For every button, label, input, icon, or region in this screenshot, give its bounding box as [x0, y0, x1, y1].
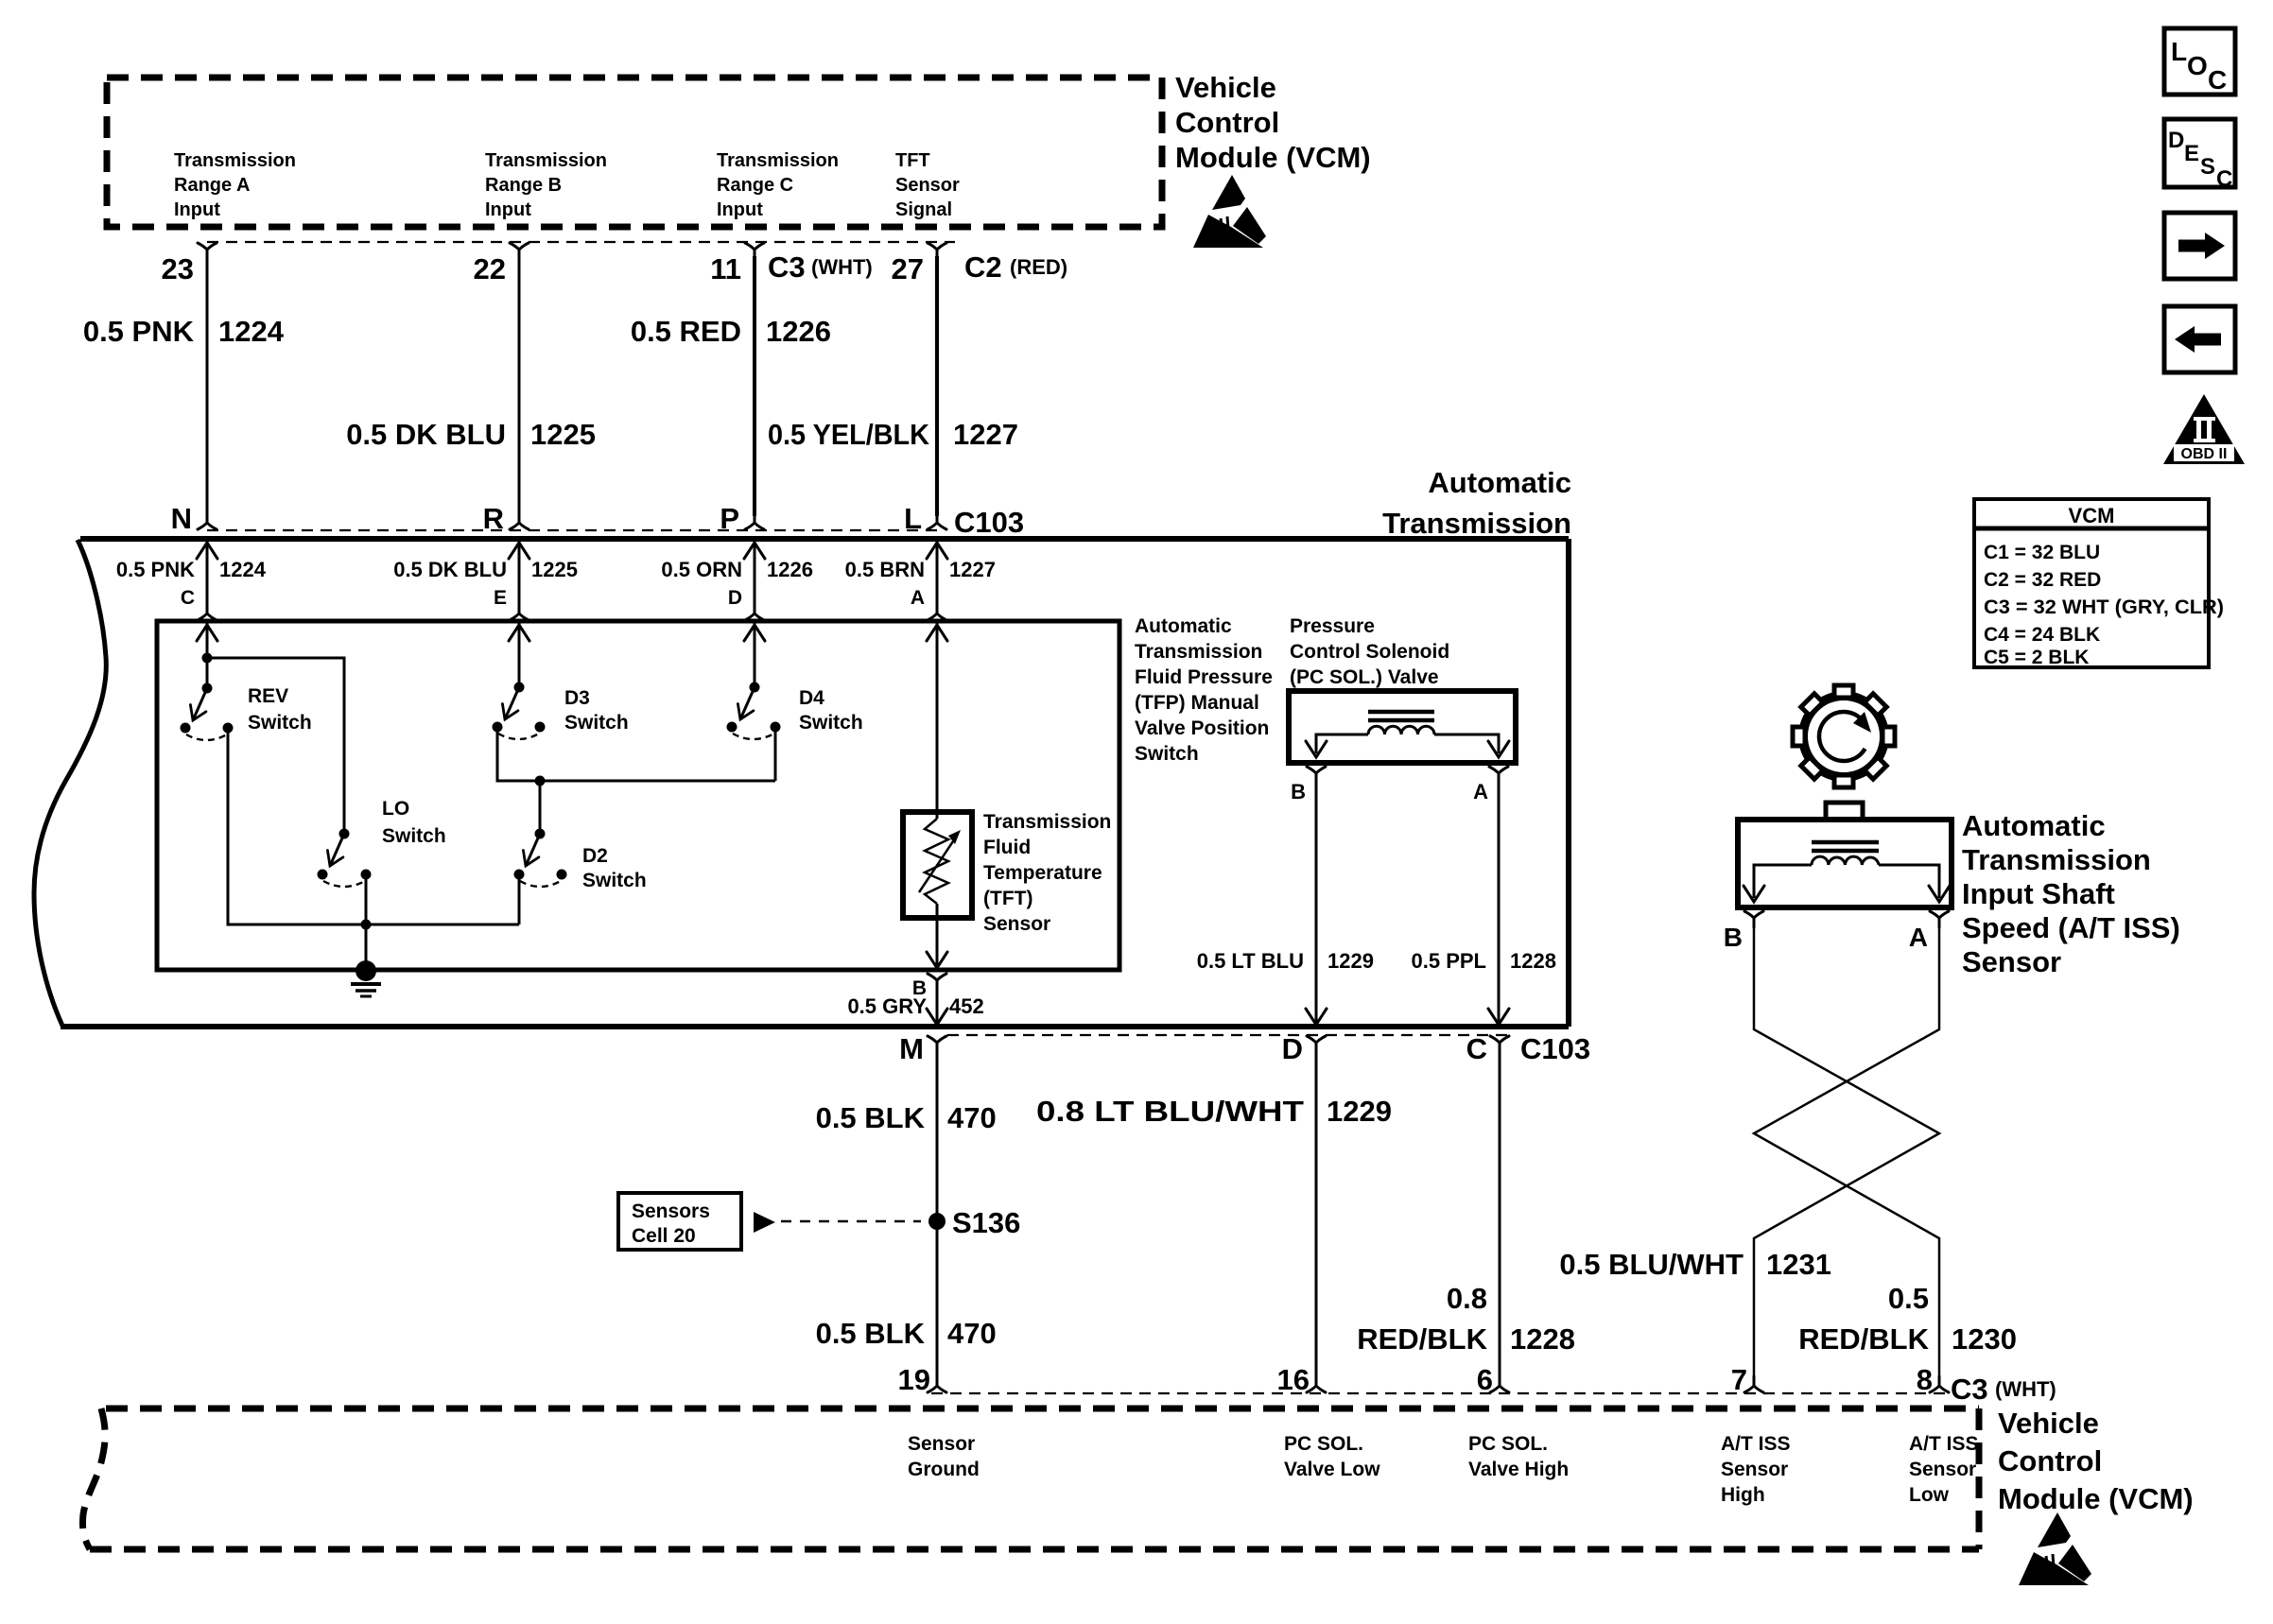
pin 6 (VCM)	[1490, 1376, 1509, 1392]
ground (case ground of TFP switch)	[351, 960, 381, 996]
svg-text:Switch: Switch	[582, 870, 647, 891]
svg-text:0.8 LT BLU/WHT: 0.8 LT BLU/WHT	[1036, 1095, 1304, 1128]
svg-text:Range B: Range B	[485, 175, 562, 196]
node junction REV/LO feed	[202, 653, 213, 664]
svg-text:Low: Low	[1909, 1484, 1950, 1506]
wire D4 switch feed	[754, 623, 756, 687]
wire arrow out of transmission (M)	[927, 1009, 947, 1025]
svg-text:0.5 DK BLU: 0.5 DK BLU	[346, 418, 506, 451]
svg-text:C4 = 24 BLK: C4 = 24 BLK	[1984, 624, 2100, 646]
pin D (C103)	[1307, 1036, 1326, 1052]
svg-text:L: L	[904, 502, 922, 535]
switch LO	[318, 829, 372, 888]
wire 1231 0.5 BLU/WHT (ISS B, twisted pair upper)	[1754, 924, 1939, 1380]
svg-text:Sensor: Sensor	[1909, 1459, 1976, 1480]
node junction D2 feed	[535, 776, 546, 786]
connector C103 line (thin dashed)	[207, 529, 941, 531]
svg-text:Sensors: Sensors	[632, 1201, 710, 1222]
wire dashed reference link to S136	[781, 1220, 921, 1223]
svg-text:Input: Input	[717, 199, 763, 220]
svg-text:Valve High: Valve High	[1468, 1459, 1569, 1480]
svg-text:0.5 PPL: 0.5 PPL	[1412, 949, 1486, 973]
wire REV contact to common bus	[228, 733, 519, 924]
solenoid PC SOL valve	[1289, 691, 1516, 763]
svg-text:S136: S136	[952, 1206, 1020, 1239]
svg-text:452: 452	[949, 994, 984, 1018]
wire 1225 0.5 DK BLU (C103 R to TFP E)	[518, 539, 521, 607]
svg-text:1228: 1228	[1510, 949, 1556, 973]
svg-text:D4: D4	[799, 687, 824, 709]
svg-text:RED/BLK: RED/BLK	[1357, 1322, 1487, 1356]
svg-text:C103: C103	[1520, 1032, 1590, 1065]
svg-text:TFT: TFT	[895, 150, 930, 171]
wire arrow into transmission (L)	[927, 543, 947, 559]
wire TFT to pin B	[936, 904, 939, 965]
wire 1224 0.5 PNK (C103 N to TFP C)	[206, 539, 209, 607]
wire arrow into transmission (R)	[509, 543, 529, 559]
svg-text:E: E	[2184, 141, 2199, 166]
connector C103 line bottom (thin dashed)	[947, 1034, 1510, 1036]
svg-text:Range A: Range A	[174, 175, 250, 196]
pin R (C103)	[510, 513, 529, 529]
svg-text:A: A	[1473, 780, 1488, 803]
pin 8 (VCM)	[1930, 1376, 1949, 1392]
svg-text:Sensor: Sensor	[983, 913, 1050, 935]
icon DESC box	[2164, 119, 2235, 192]
svg-text:1226: 1226	[766, 315, 831, 348]
svg-text:1224: 1224	[219, 558, 267, 581]
svg-text:Control: Control	[1998, 1444, 2102, 1477]
pin L (C103)	[928, 513, 946, 529]
wire arrow into transmission (P)	[744, 543, 765, 559]
svg-text:L: L	[2171, 37, 2187, 66]
svg-text:Input: Input	[174, 199, 220, 220]
svg-text:OBD II: OBD II	[2181, 446, 2228, 462]
svg-text:N: N	[171, 502, 192, 535]
svg-text:16: 16	[1277, 1363, 1310, 1396]
svg-text:1231: 1231	[1766, 1248, 1831, 1281]
svg-text:D: D	[2168, 128, 2184, 153]
svg-text:A: A	[1909, 923, 1928, 952]
pin M (C103)	[928, 1036, 946, 1052]
wire D4 contact down	[774, 732, 777, 781]
svg-text:Pressure: Pressure	[1290, 615, 1375, 637]
svg-text:D: D	[1282, 1032, 1303, 1065]
wire D2 contact to common bus	[518, 879, 521, 924]
svg-text:D: D	[728, 587, 742, 609]
svg-text:Automatic: Automatic	[1135, 615, 1232, 637]
svg-text:Range C: Range C	[717, 175, 793, 196]
pin 11 (VCM)	[745, 243, 764, 259]
svg-text:1226: 1226	[767, 558, 813, 581]
svg-text:Signal: Signal	[895, 199, 952, 220]
svg-text:(TFT): (TFT)	[983, 888, 1032, 909]
wire 452 0.5 GRY (TFP B to C103 M)	[936, 987, 939, 1022]
icon gear (rotating input shaft)	[1793, 685, 1895, 787]
switch D3	[493, 682, 546, 740]
pin 22 (VCM)	[510, 243, 529, 259]
wire TFT sensor feed	[936, 623, 939, 819]
svg-text:S: S	[2200, 154, 2215, 180]
box VCM connector table	[1974, 499, 2224, 668]
svg-text:High: High	[1721, 1484, 1765, 1506]
svg-text:Sensor: Sensor	[1721, 1459, 1788, 1480]
svg-text:Fluid: Fluid	[983, 837, 1031, 858]
svg-text:22: 22	[474, 252, 506, 285]
svg-text:Input Shaft: Input Shaft	[1962, 877, 2115, 910]
svg-text:0.5 BLK: 0.5 BLK	[816, 1317, 926, 1350]
svg-text:B: B	[1291, 780, 1306, 803]
wire 470 0.5 BLK lower (S136 to VCM 19)	[936, 1221, 939, 1380]
svg-text:470: 470	[947, 1317, 997, 1350]
svg-text:D2: D2	[582, 845, 608, 867]
svg-text:Switch: Switch	[248, 712, 312, 734]
svg-text:0.5: 0.5	[1888, 1282, 1929, 1315]
svg-text:0.5 GRY: 0.5 GRY	[847, 994, 927, 1018]
wire arrow into transmission (N)	[197, 543, 217, 559]
wire arrow out of TFP (B)	[927, 952, 947, 968]
svg-text:23: 23	[162, 252, 194, 285]
svg-text:D3: D3	[564, 687, 590, 709]
connector line VCM C3 bottom (thin dashed)	[931, 1392, 1945, 1394]
svg-text:Switch: Switch	[564, 712, 629, 734]
svg-text:0.5 ORN: 0.5 ORN	[661, 558, 742, 581]
svg-text:(RED): (RED)	[1010, 255, 1067, 279]
svg-text:Temperature: Temperature	[983, 862, 1102, 884]
wire arrow into TFP (C)	[197, 625, 217, 641]
svg-text:Vehicle: Vehicle	[1175, 71, 1276, 104]
svg-text:Transmission: Transmission	[1382, 507, 1571, 540]
svg-text:0.5 BLU/WHT: 0.5 BLU/WHT	[1559, 1248, 1744, 1281]
switch REV	[181, 683, 234, 741]
svg-text:Speed (A/T ISS): Speed (A/T ISS)	[1962, 911, 2180, 944]
pin 7 (VCM)	[1744, 1376, 1763, 1392]
svg-text:27: 27	[892, 252, 924, 285]
pin 16 (VCM)	[1307, 1376, 1326, 1392]
node splice S136	[928, 1213, 946, 1230]
icon arrow right box	[2164, 213, 2235, 279]
svg-text:(PC SOL.) Valve: (PC SOL.) Valve	[1290, 666, 1439, 688]
wire to D2 common	[539, 781, 542, 834]
module VCM top box (dashed)	[107, 78, 1162, 227]
svg-text:1228: 1228	[1510, 1322, 1575, 1356]
wire 1227 0.5 BRN (C103 L to TFP A)	[936, 539, 939, 607]
svg-text:0.5 YEL/BLK: 0.5 YEL/BLK	[768, 418, 930, 451]
svg-text:0.5 PNK: 0.5 PNK	[116, 558, 195, 581]
pin 19 (VCM)	[928, 1376, 946, 1392]
svg-text:0.5 DK BLU: 0.5 DK BLU	[393, 558, 507, 581]
svg-text:C3: C3	[768, 251, 806, 284]
symbol ESD warning (bottom)	[2019, 1512, 2091, 1585]
svg-text:Valve Low: Valve Low	[1284, 1459, 1380, 1480]
svg-text:Sensor: Sensor	[908, 1433, 975, 1455]
icon OBD II triangle	[2163, 394, 2245, 464]
svg-text:A/T ISS: A/T ISS	[1721, 1433, 1791, 1455]
module VCM bottom box (dashed)	[82, 1408, 1979, 1549]
pin D (TFP switch)	[745, 604, 764, 620]
svg-text:8: 8	[1917, 1363, 1933, 1396]
wire 1226 0.5 RED (VCM 11 to C103 P)	[753, 256, 756, 516]
svg-text:Fluid Pressure: Fluid Pressure	[1135, 666, 1273, 688]
svg-text:C5 = 2 BLK: C5 = 2 BLK	[1984, 647, 2089, 668]
svg-text:Vehicle: Vehicle	[1998, 1407, 2099, 1440]
wire LO contact to ground	[365, 879, 368, 970]
svg-text:Input: Input	[485, 199, 531, 220]
component box TFP manual valve position switch (inner)	[157, 621, 1119, 970]
wire 1226 0.5 ORN (C103 P to TFP D)	[754, 539, 756, 607]
pin A (PC SOL valve)	[1489, 767, 1508, 783]
svg-text:Ground: Ground	[908, 1459, 980, 1480]
pin C (C103)	[1490, 1036, 1509, 1052]
svg-text:Transmission: Transmission	[1962, 843, 2151, 876]
icon LOC box	[2164, 28, 2235, 95]
svg-text:C: C	[1466, 1032, 1487, 1065]
svg-text:C2 = 32 RED: C2 = 32 RED	[1984, 569, 2101, 591]
svg-text:VCM: VCM	[2069, 504, 2115, 527]
pin P (C103)	[745, 513, 764, 529]
svg-text:Control: Control	[1175, 106, 1279, 139]
svg-text:0.8: 0.8	[1447, 1282, 1487, 1315]
svg-text:PC SOL.: PC SOL.	[1468, 1433, 1548, 1455]
wire 1228 0.5 PPL (PC SOL A to C103 C)	[1498, 780, 1501, 1022]
svg-text:REV: REV	[248, 685, 288, 707]
svg-text:Transmission: Transmission	[485, 150, 607, 171]
wire D3 contact to D4 contact bus	[497, 732, 775, 781]
svg-text:RED/BLK: RED/BLK	[1798, 1322, 1929, 1356]
wire arrow into TFP (D)	[744, 625, 765, 641]
svg-text:6: 6	[1477, 1363, 1493, 1396]
pin B (PC SOL valve)	[1307, 767, 1326, 783]
svg-text:A: A	[911, 587, 925, 609]
connector line VCM C2/C3 (thin dashed)	[207, 241, 955, 243]
switch D2	[514, 829, 567, 888]
svg-text:0.5 LT BLU: 0.5 LT BLU	[1197, 949, 1304, 973]
svg-text:C1 = 32 BLU: C1 = 32 BLU	[1984, 542, 2100, 563]
wire 1224 0.5 PNK (VCM 23 to C103 N)	[206, 256, 209, 516]
switch D4	[727, 682, 781, 740]
svg-text:C2: C2	[964, 251, 1002, 284]
svg-text:19: 19	[898, 1363, 930, 1396]
wire 1228 0.8 RED/BLK (C103 C to VCM 6)	[1499, 1049, 1501, 1380]
svg-text:1229: 1229	[1327, 949, 1374, 973]
svg-text:1224: 1224	[218, 315, 285, 348]
svg-text:Sensor: Sensor	[895, 175, 960, 196]
svg-text:1230: 1230	[1952, 1322, 2017, 1356]
svg-text:0.5 BLK: 0.5 BLK	[816, 1101, 926, 1134]
pin B (A/T ISS sensor)	[1744, 911, 1763, 927]
svg-text:1227: 1227	[953, 418, 1018, 451]
box reference Sensors Cell 20	[618, 1193, 741, 1250]
svg-text:Switch: Switch	[382, 825, 446, 847]
svg-text:PC SOL.: PC SOL.	[1284, 1433, 1363, 1455]
pin 27 (VCM)	[928, 243, 946, 259]
svg-text:C: C	[181, 587, 195, 609]
svg-text:470: 470	[947, 1101, 997, 1134]
sensor TFT (thermistor)	[903, 812, 972, 918]
svg-text:(TFP) Manual: (TFP) Manual	[1135, 692, 1259, 714]
wire 1225 0.5 DK BLU (VCM 22 to C103 R)	[518, 256, 521, 516]
svg-text:C: C	[2216, 166, 2232, 192]
wire 470 0.5 BLK upper (C103 M to S136)	[936, 1049, 939, 1221]
svg-text:Transmission: Transmission	[983, 811, 1111, 833]
pin C (TFP switch)	[198, 604, 217, 620]
svg-text:Control Solenoid: Control Solenoid	[1290, 641, 1449, 663]
svg-text:O: O	[2187, 51, 2208, 80]
wire D3 switch feed	[518, 623, 521, 687]
svg-text:1229: 1229	[1327, 1095, 1392, 1128]
svg-text:0.5 BRN: 0.5 BRN	[845, 558, 925, 581]
icon arrow left box	[2164, 306, 2235, 372]
wire arrow into TFP (A)	[927, 625, 947, 641]
svg-text:Transmission: Transmission	[174, 150, 296, 171]
wire 1230 0.5 RED/BLK (ISS A, twisted pair lower)	[1754, 924, 1939, 1380]
svg-text:Transmission: Transmission	[717, 150, 839, 171]
svg-text:A/T ISS: A/T ISS	[1909, 1433, 1979, 1455]
svg-text:Cell 20: Cell 20	[632, 1225, 696, 1247]
wire link to LO switch common	[207, 658, 344, 834]
svg-text:C3 = 32 WHT (GRY, CLR): C3 = 32 WHT (GRY, CLR)	[1984, 596, 2224, 618]
svg-text:1225: 1225	[531, 558, 578, 581]
pin E (TFP switch)	[510, 604, 529, 620]
arrow reference pointer	[754, 1212, 775, 1233]
pin A (TFP switch)	[928, 604, 946, 620]
pin B (TFP switch)	[928, 974, 946, 990]
wire arrow into TFP (E)	[509, 625, 529, 641]
svg-text:0.5 RED: 0.5 RED	[631, 315, 741, 348]
svg-text:7: 7	[1731, 1363, 1747, 1396]
symbol ESD warning (top)	[1193, 175, 1266, 248]
svg-text:1225: 1225	[530, 418, 596, 451]
component box Automatic Transmission (outer)	[34, 539, 1569, 1027]
svg-text:0.5 PNK: 0.5 PNK	[83, 315, 195, 348]
svg-text:Sensor: Sensor	[1962, 945, 2061, 978]
pin A (A/T ISS sensor)	[1930, 911, 1949, 927]
sensor A/T ISS (input shaft speed)	[1738, 803, 1952, 907]
pin N (C103)	[198, 513, 217, 529]
svg-text:Switch: Switch	[1135, 743, 1199, 765]
svg-text:E: E	[494, 587, 507, 609]
svg-text:C: C	[2208, 65, 2227, 95]
node junction on common bus	[361, 920, 372, 930]
svg-text:11: 11	[710, 252, 741, 285]
svg-text:LO: LO	[382, 798, 409, 820]
svg-text:Switch: Switch	[799, 712, 863, 734]
wire 1229 0.8 LT BLU/WHT (C103 D to VCM 16)	[1315, 1049, 1318, 1380]
wire 1229 0.5 LT BLU (PC SOL B to C103 D)	[1315, 780, 1318, 1022]
svg-text:Transmission: Transmission	[1135, 641, 1262, 663]
svg-text:Automatic: Automatic	[1962, 809, 2106, 842]
svg-text:R: R	[483, 502, 504, 535]
svg-text:C103: C103	[954, 506, 1024, 539]
svg-text:P: P	[720, 502, 739, 535]
svg-text:M: M	[899, 1032, 924, 1065]
svg-text:(WHT): (WHT)	[1995, 1377, 2056, 1401]
pin 23 (VCM)	[198, 243, 217, 259]
svg-text:Module (VCM): Module (VCM)	[1998, 1482, 2194, 1515]
svg-text:Automatic: Automatic	[1428, 466, 1571, 499]
wire REV switch feed	[206, 623, 209, 688]
wire 1227 0.5 YEL/BLK (VCM 27 to C103 L)	[935, 256, 939, 516]
svg-text:B: B	[1724, 923, 1743, 952]
svg-text:Valve Position: Valve Position	[1135, 717, 1269, 739]
svg-text:Module (VCM): Module (VCM)	[1175, 141, 1371, 174]
svg-text:C3: C3	[1951, 1373, 1988, 1406]
svg-text:(WHT): (WHT)	[811, 255, 873, 279]
svg-text:1227: 1227	[949, 558, 996, 581]
